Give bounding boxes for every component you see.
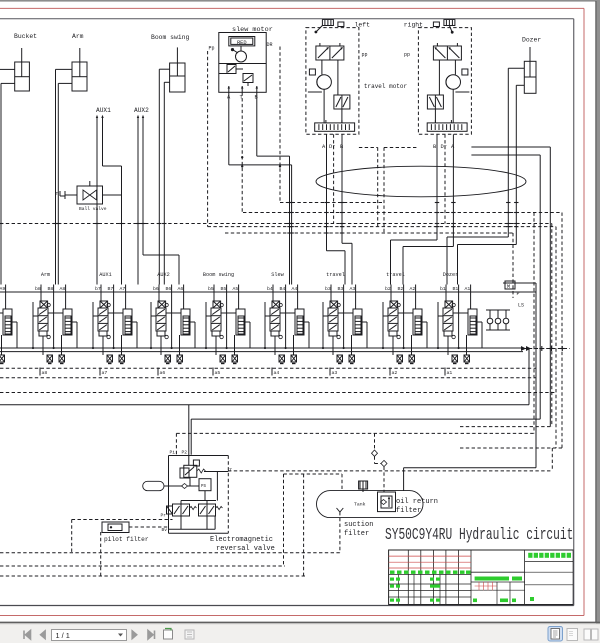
valve bank rail y348 [0,347,523,349]
svg-text:b6: b6 [153,286,159,292]
title block table [389,550,574,605]
wire right drain run 2 [471,154,540,156]
svg-text:Ball valve: Ball valve [79,206,107,212]
pump internal connectors [204,491,206,501]
svg-text:Tank: Tank [354,502,366,508]
slew motor RED pilot box [229,37,255,46]
svg-text:T: T [56,191,59,197]
layout button continuous [567,629,578,641]
svg-text:1 / 1: 1 / 1 [56,631,70,640]
company name green text [528,553,532,558]
inner drawing frame [0,18,574,20]
ball valve [77,186,103,204]
svg-text:reversal valve: reversal valve [216,545,275,553]
wire arm port A [56,68,73,70]
svg-text:A1: A1 [465,286,471,292]
svg-text:oil return: oil return [396,498,438,506]
svg-text:B7: B7 [108,286,114,292]
pilot vertical x534 [533,213,535,434]
electromagnetic valve left [173,504,190,516]
wire accumulator to valve [164,485,183,487]
svg-text:a1: a1 [447,370,453,376]
wire travel-left Dr pilot [333,134,335,223]
red outer frame [0,7,584,9]
svg-text:travel: travel [386,272,405,278]
valve bank dashed rail y377.8 [0,377,536,379]
slew motor internals [231,48,234,51]
wire ball valve right [103,194,122,196]
svg-text:A5: A5 [233,286,239,292]
svg-text:Dr: Dr [441,144,447,150]
svg-text:A3: A3 [350,286,356,292]
svg-text:B4: B4 [280,286,286,292]
pump feed lines [188,405,190,466]
toolbar prev button [40,631,45,640]
title block green microtext [390,571,395,574]
pilot rail y433 [176,432,534,434]
travel T pilot lines [359,147,378,149]
toolbar last-page button [148,631,155,640]
svg-text:b8: b8 [35,286,41,292]
svg-text:Boom swing: Boom swing [203,272,234,278]
svg-text:Dozer: Dozer [522,37,541,44]
svg-text:A2: A2 [410,286,416,292]
svg-text:AUX2: AUX2 [157,272,169,278]
svg-text:B5: B5 [221,286,227,292]
toolbar [0,624,600,643]
viewer right gutter [596,0,600,624]
svg-text:RED: RED [237,40,247,46]
svg-text:DR: DR [267,42,273,48]
wire AUX2 line A [137,121,139,285]
svg-text:Electromagnetic: Electromagnetic [210,536,273,544]
wire AUX2 line B [142,121,144,255]
svg-text:A7: A7 [120,286,126,292]
page bottom edge [0,621,600,623]
svg-text:P2: P2 [182,450,188,456]
title block company cell [524,550,526,605]
svg-text:PS: PS [201,485,207,489]
svg-text:Dr: Dr [329,144,335,150]
wire arm port B [58,82,72,84]
svg-text:B3: B3 [338,286,344,292]
svg-text:a7: a7 [102,370,108,376]
svg-text:left: left [355,21,371,28]
pilot rail y212 [243,212,562,214]
pilot rail y576 [0,575,306,577]
svg-text:b2: b2 [385,286,391,292]
return line y419 [191,418,540,420]
wire dozer port A [508,67,524,69]
valve bank right end cap [503,282,536,284]
pilot filter [102,522,129,533]
svg-text:B8: B8 [48,286,54,292]
svg-text:Dozer: Dozer [443,272,459,278]
svg-text:Pp: Pp [209,46,215,52]
wire AUX1 line A [96,121,98,285]
pump pressure valve PS [199,479,211,491]
wire bucket port A [0,68,15,70]
toolbar first-page button [24,631,31,640]
viewer top edge [0,0,600,2]
wire slew B [256,92,258,156]
svg-text:pp: pp [404,52,410,58]
title block middle cells [471,571,525,573]
svg-text:filter: filter [344,530,369,538]
svg-text:a3: a3 [332,370,338,376]
valve bank dashed rail y368 [0,367,536,369]
valve bank rail y351.6 [0,351,523,353]
svg-text:b7: b7 [95,286,101,292]
wire ball valve left to T [65,194,77,196]
toolbar copy icon [185,630,194,639]
wire travel-right Dr pilot [444,134,446,223]
svg-text:AUX1: AUX1 [96,107,111,114]
svg-text:filter: filter [396,507,421,515]
check valves to return filter [374,433,376,450]
wire travel-left B [341,134,343,243]
svg-text:P: P [517,291,520,297]
svg-text:a4: a4 [274,370,280,376]
wire travel-right B [452,134,454,246]
pilot rail y226 [208,226,556,228]
svg-text:Pr: Pr [161,513,167,519]
pilot vertical x551 [551,224,553,427]
pilot rail y223 [0,223,552,225]
svg-text:suction: suction [344,521,373,529]
pump block [168,456,170,534]
svg-text:a8: a8 [42,370,48,376]
svg-text:A6: A6 [178,286,184,292]
toolbar next button [132,631,137,640]
svg-text:b4: b4 [267,286,273,292]
tank return line y468 [404,467,536,469]
breather filter [359,481,368,489]
svg-text:b5: b5 [208,286,214,292]
return rail y404.8 [0,404,529,406]
svg-text:AUX1: AUX1 [99,272,111,278]
svg-text:Pi: Pi [170,450,176,456]
pump relief valve [180,468,189,478]
svg-text:B1: B1 [453,286,459,292]
svg-text:pp: pp [362,52,368,58]
wire boom swing port A [159,68,169,70]
return line y426 dashed [460,426,552,428]
wire AUX1 line B [102,121,104,166]
wire slew T pilot [241,92,243,212]
pilot rail y448 [460,447,562,449]
svg-text:a6: a6 [160,370,166,376]
svg-text:SY50C9Y4RU Hydraulic circuit: SY50C9Y4RU Hydraulic circuit [385,526,573,545]
pilot rail y392.5 [0,392,556,394]
electromagnetic valve right [199,504,216,516]
oil return filter [378,492,396,512]
suction strainer [337,508,344,512]
pilot vertical x556 [555,227,557,448]
accumulator [143,481,164,490]
tank [317,491,424,518]
toolbar snapshot icon [164,630,173,639]
svg-text:Bv: Bv [162,527,168,533]
pilot rail y566 [0,565,285,567]
pilot branch LS [512,233,514,298]
svg-text:A4: A4 [292,286,298,292]
pump Bv line [169,528,216,530]
main relief valves [487,318,493,324]
wire dozer port B [516,84,524,86]
pilot rail y202 [280,202,384,204]
svg-text:a5: a5 [215,370,221,376]
wire travel-left A [326,134,328,250]
wire travel-right A [436,134,438,240]
pilot rail y552 [0,552,340,554]
svg-text:AUX2: AUX2 [134,107,149,114]
toolbar page input [52,630,127,641]
pump drain stubs [180,516,182,529]
layout button two-page [584,629,591,640]
return junction arrows [521,346,526,351]
svg-text:Bucket: Bucket [14,33,37,40]
svg-text:A8: A8 [60,286,66,292]
junction ticks on pilot rails [0,223,3,225]
pilot filter lines [129,526,169,528]
valve bank top rail [0,291,536,293]
svg-text:Boom swing: Boom swing [151,34,190,41]
svg-text:B6: B6 [166,286,172,292]
svg-text:b3: b3 [325,286,331,292]
svg-text:Arm: Arm [41,272,50,278]
pilot vertical x176 to pump [175,433,177,454]
svg-text:travel motor: travel motor [364,83,408,90]
junction dots slew wires [241,165,243,167]
svg-text:a2: a2 [392,370,398,376]
return corner x529 [528,349,530,405]
svg-text:LS: LS [518,303,524,309]
svg-text:pilot filter: pilot filter [104,536,149,543]
pilot verticals bottom [283,474,285,566]
svg-text:B2: B2 [398,286,404,292]
svg-text:A9: A9 [0,286,5,292]
wire bucket port B [1,82,15,84]
wire slew A [228,92,230,165]
wire right drain run 1 [471,146,550,148]
svg-text:M: M [507,284,510,290]
pilot line Pr [72,519,173,521]
center joint ellipse [316,166,526,197]
svg-text:Slew: Slew [271,272,284,278]
wire boom swing port B [164,81,169,83]
slew motor port arrows [228,86,230,92]
svg-text:travel: travel [326,272,345,278]
layout button single-page (active) [548,627,563,642]
svg-text:Arm: Arm [72,33,84,40]
svg-text:b1: b1 [440,286,446,292]
pilot rail y233 [225,232,513,234]
pilot vertical x562 [561,213,563,449]
pilot vertical x552 to T line [551,448,553,471]
